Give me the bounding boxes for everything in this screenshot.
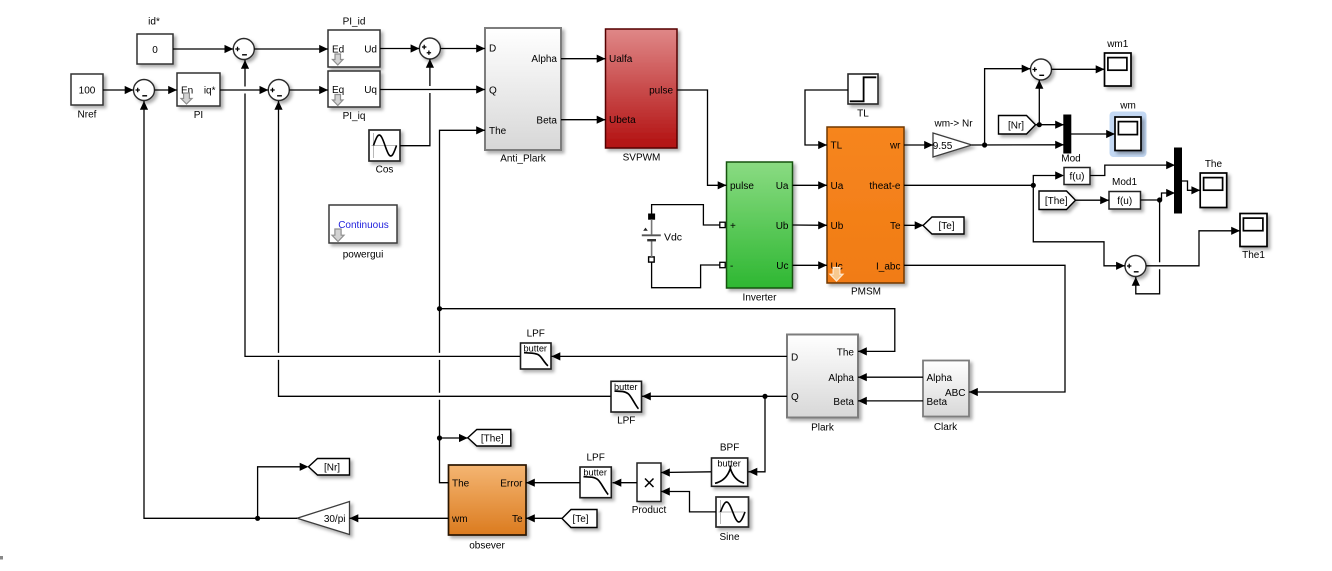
junction Mod1 output xyxy=(1157,197,1162,202)
svg-text:LPF: LPF xyxy=(527,329,545,340)
wire TL to PMSM TL xyxy=(805,90,848,149)
wire S5 to scope wm1 xyxy=(1052,65,1105,73)
filter LPF d-axis butter xyxy=(521,329,552,369)
wire Product to LPF3 xyxy=(613,479,638,487)
from tag The xyxy=(1039,191,1076,210)
svg-text:-: - xyxy=(730,261,733,272)
wire PMSM wr to gain xyxy=(904,141,933,149)
wire Nref to S1 xyxy=(103,86,134,94)
gain 30/pi flipped xyxy=(297,502,350,535)
wire PMSM theat-e to junction xyxy=(904,184,1033,186)
svg-text:Alpha: Alpha xyxy=(927,373,953,384)
wire Inverter Uc to PMSM Uc xyxy=(793,261,828,269)
mux The xyxy=(1175,148,1182,213)
svg-text:Ubeta: Ubeta xyxy=(609,115,636,126)
wire S4 to Anti_Plark D xyxy=(440,44,485,52)
svg-text:The: The xyxy=(837,347,855,358)
svg-text:Ub: Ub xyxy=(776,221,789,232)
wire Clark Beta to Plark Beta xyxy=(858,397,923,405)
junction wm feedback to Nr goto xyxy=(255,516,260,521)
block PI_id current controller xyxy=(328,17,380,68)
svg-text:100: 100 xyxy=(79,86,96,97)
wire from Te tag to obsever Te xyxy=(526,514,562,522)
junction The line at goto xyxy=(437,435,442,440)
wire S2 to PI_id Ed xyxy=(254,45,328,53)
wire Vdc minus to Inverter minus xyxy=(652,262,720,288)
wire The junction to Plark The input xyxy=(440,309,895,356)
svg-text:iq*: iq* xyxy=(204,86,216,97)
svg-text:TL: TL xyxy=(831,141,843,152)
svg-text:Anti_Plark: Anti_Plark xyxy=(500,154,547,165)
wire PI iq* to S3 xyxy=(220,86,268,94)
block Inverter xyxy=(720,162,793,304)
svg-text:Q: Q xyxy=(489,86,497,97)
svg-text:0: 0 xyxy=(152,45,158,56)
block PI_iq current controller xyxy=(328,71,380,122)
svg-text:Te: Te xyxy=(512,514,523,525)
svg-text:powergui: powergui xyxy=(343,250,384,261)
svg-text:wm1: wm1 xyxy=(1106,39,1129,50)
svg-text:30/pi: 30/pi xyxy=(324,514,346,525)
svg-text:D: D xyxy=(791,352,798,363)
svg-text:wm-> Nr: wm-> Nr xyxy=(933,119,973,130)
svg-text:The: The xyxy=(1205,159,1223,170)
junction wr feedback xyxy=(982,142,987,147)
svg-text:Ua: Ua xyxy=(776,181,789,192)
svg-text:Q: Q xyxy=(791,392,799,403)
sum junction S4 Ud plus cos xyxy=(419,38,440,59)
sum junction S3 iq loop xyxy=(268,80,289,101)
svg-text:Nref: Nref xyxy=(78,110,97,121)
from tag Te flipped xyxy=(562,510,597,528)
gain 9.55 wm to Nr xyxy=(933,119,973,158)
block Clark transform flipped xyxy=(923,361,969,434)
svg-text:Alpha: Alpha xyxy=(531,54,557,65)
fcn block f(u) Mod1 xyxy=(1109,177,1141,209)
svg-text:PI_id: PI_id xyxy=(343,17,366,28)
svg-text:Ualfa: Ualfa xyxy=(609,54,633,65)
block Anti_Plark inverse Park transform xyxy=(485,28,561,165)
wire PMSM I_abc to Clark ABC xyxy=(904,265,1065,396)
filter LPF q-axis butter xyxy=(611,381,642,426)
svg-text:TL: TL xyxy=(857,109,869,120)
junction Nr tag output xyxy=(1037,122,1042,127)
svg-text:SVPWM: SVPWM xyxy=(623,153,661,164)
wire Inverter Ub to PMSM Ub xyxy=(793,221,828,229)
svg-text:Inverter: Inverter xyxy=(743,293,778,304)
wire Mod1 junction down to S6 minus xyxy=(1132,200,1160,294)
wire Anti_Plark Beta to SVPWM Ubeta xyxy=(561,116,606,124)
wire Inverter Ua to PMSM Ua xyxy=(793,181,828,189)
svg-text:[The]: [The] xyxy=(1045,196,1068,207)
goto tag Nr xyxy=(309,459,350,476)
scope The xyxy=(1200,159,1227,208)
svg-text:Ua: Ua xyxy=(831,181,844,192)
svg-text:Ub: Ub xyxy=(831,221,844,232)
svg-text:LPF: LPF xyxy=(617,416,635,427)
wire from Nr tag to Mod mux upper input xyxy=(1036,121,1065,129)
wire PMSM Te to goto Te xyxy=(904,221,924,229)
svg-text:The1: The1 xyxy=(1242,250,1265,261)
block PMSM motor xyxy=(827,127,904,298)
scope The1 xyxy=(1240,214,1267,262)
block SVPWM modulator xyxy=(606,29,678,164)
junction Plark Q output xyxy=(762,394,767,399)
wire Nr junction up to S5 minus xyxy=(1035,80,1043,125)
block TL step source xyxy=(848,74,878,120)
filter LPF error butter xyxy=(580,453,611,498)
wire Anti_Plark Alpha to SVPWM Ualfa xyxy=(561,55,606,63)
svg-text:Te: Te xyxy=(890,221,901,232)
filter BPF butter xyxy=(712,443,748,487)
block Product multiplier flipped xyxy=(632,463,667,516)
block Plark Park transform flipped xyxy=(787,335,858,434)
wire The junction to goto The xyxy=(440,434,468,442)
sum junction S2 id loop xyxy=(233,39,254,60)
wire S1 to PI En xyxy=(155,86,178,94)
wire The tag to fcn Mod1 xyxy=(1076,196,1110,204)
block PI speed controller xyxy=(177,73,220,121)
svg-text:[Nr]: [Nr] xyxy=(324,462,340,473)
wire Q junction down to BPF xyxy=(749,396,766,476)
svg-text:+: + xyxy=(730,221,736,232)
wire theat-e down to S6 plus xyxy=(1033,185,1125,270)
svg-text:The: The xyxy=(452,479,470,490)
constant Nref value 100 xyxy=(71,74,103,121)
svg-text:Sine: Sine xyxy=(719,532,739,543)
svg-text:theat-e: theat-e xyxy=(869,181,901,192)
scope wm selected xyxy=(1110,101,1147,158)
svg-text:D: D xyxy=(489,44,496,55)
svg-text:wr: wr xyxy=(889,141,901,152)
wire BPF to Product input 1 xyxy=(661,468,711,476)
wire Sine to Product input 2 xyxy=(661,487,716,512)
junction theat-e xyxy=(1031,183,1036,188)
wire theat-e junction to fcn upper xyxy=(1033,171,1064,185)
sum junction S1 speed loop xyxy=(134,80,155,101)
svg-text:[Te]: [Te] xyxy=(938,221,954,232)
wire LPF1 to S2 minus xyxy=(241,60,520,356)
wire obsever The up to Anti_Plark The xyxy=(440,126,486,483)
svg-text:pulse: pulse xyxy=(730,181,754,192)
wire obsever wm to gain 30pi xyxy=(350,514,449,522)
svg-text:f(u): f(u) xyxy=(1117,196,1132,207)
svg-text:Beta: Beta xyxy=(536,116,557,127)
wire gain to Mod mux lower input xyxy=(972,141,1064,149)
wire Plark D to LPF1 xyxy=(552,352,788,360)
svg-text:Vdc: Vdc xyxy=(664,232,682,244)
svg-text:obsever: obsever xyxy=(469,541,505,552)
fcn block f(u) upper xyxy=(1064,168,1090,185)
wire PI_iq Uq to Anti_Plark Q xyxy=(380,85,485,93)
svg-text:Clark: Clark xyxy=(934,422,958,433)
block obsever observer flipped xyxy=(449,465,527,552)
sum junction S6 The error xyxy=(1125,256,1146,277)
svg-text:wm: wm xyxy=(451,514,468,525)
sum junction S5 speed error xyxy=(1031,59,1052,80)
svg-text:LPF: LPF xyxy=(586,453,604,464)
block Sine source flipped xyxy=(716,497,749,543)
svg-text:9.55: 9.55 xyxy=(933,141,953,152)
svg-text:butter: butter xyxy=(717,459,741,469)
svg-text:I_abc: I_abc xyxy=(876,261,900,272)
wire Clark Alpha to Plark Alpha xyxy=(858,373,923,381)
wire Cos to S4 bottom xyxy=(400,59,434,146)
block Cos source xyxy=(369,130,400,176)
block Vdc DC voltage source xyxy=(642,214,682,262)
svg-text:ABC: ABC xyxy=(945,388,966,399)
svg-text:Beta: Beta xyxy=(833,397,854,408)
wire fcn upper to mux The upper input xyxy=(1090,161,1175,176)
from tag Nr xyxy=(999,116,1036,135)
svg-text:pulse: pulse xyxy=(649,86,673,97)
wire wr junction up to S5 xyxy=(985,65,1031,145)
svg-text:PMSM: PMSM xyxy=(851,287,881,298)
wire S3 to PI_iq Eq xyxy=(289,86,328,94)
svg-text:BPF: BPF xyxy=(720,443,739,454)
wire 30pi to S1 minus xyxy=(140,101,297,518)
svg-text:[Nr]: [Nr] xyxy=(1008,120,1024,131)
wire PI_id Ud to S4 xyxy=(380,44,419,52)
wire id* 0 to S2 xyxy=(173,45,233,53)
mux Mod xyxy=(1061,115,1080,165)
svg-text:Plark: Plark xyxy=(811,423,835,434)
wire LPF3 to obsever Error xyxy=(526,479,580,487)
svg-text:Mod: Mod xyxy=(1061,154,1080,165)
svg-text:Uc: Uc xyxy=(776,261,788,272)
wire SVPWM pulse to Inverter pulse xyxy=(677,90,727,189)
svg-text:Continuous: Continuous xyxy=(338,220,389,231)
svg-text:[The]: [The] xyxy=(481,433,504,444)
junction The line at Plark feed xyxy=(437,306,442,311)
wire fcn Mod1 to mux The lower input xyxy=(1141,189,1176,200)
wire Plark Q to LPF2 xyxy=(642,392,787,400)
svg-text:Error: Error xyxy=(500,479,523,490)
svg-text:PI: PI xyxy=(194,110,203,121)
artifact mark bottom left xyxy=(0,556,3,560)
wire LPF2 to S3 minus xyxy=(274,101,610,396)
svg-text:Alpha: Alpha xyxy=(828,373,854,384)
svg-text:id*: id* xyxy=(148,17,160,28)
wire Mod mux to scope wm xyxy=(1071,130,1116,138)
svg-text:Mod1: Mod1 xyxy=(1112,177,1137,188)
svg-text:wm: wm xyxy=(1119,101,1136,112)
goto tag The xyxy=(468,430,511,447)
svg-text:[Te]: [Te] xyxy=(572,514,588,525)
svg-text:Cos: Cos xyxy=(376,165,394,176)
wire S6 to scope The1 xyxy=(1146,227,1240,266)
constant id* value 0 xyxy=(137,17,173,65)
svg-text:f(u): f(u) xyxy=(1070,172,1085,183)
svg-text:Product: Product xyxy=(632,505,667,516)
wire Vdc plus to Inverter plus xyxy=(652,205,720,225)
svg-text:Ud: Ud xyxy=(364,45,377,56)
wire mux The to scope The xyxy=(1182,181,1201,194)
scope wm1 xyxy=(1105,39,1132,86)
wire wm junction to goto Nr xyxy=(258,463,309,519)
svg-text:Uq: Uq xyxy=(364,85,377,96)
goto tag Te xyxy=(923,217,964,234)
svg-text:The: The xyxy=(489,126,507,137)
svg-text:PI_iq: PI_iq xyxy=(343,111,366,122)
block powergui Continuous xyxy=(329,205,397,261)
